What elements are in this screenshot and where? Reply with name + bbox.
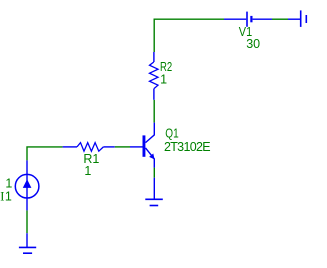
wire net top: R2 top to battery V1 [154, 19, 224, 52]
wire R1 right to Q1 base [115, 146, 130, 148]
svg-text:30: 30 [246, 37, 260, 51]
resistor R2 [150, 52, 159, 100]
resistor R1 [63, 143, 115, 152]
ground (at I1) [19, 233, 36, 253]
wire battery V1 to rotated ground [272, 18, 288, 20]
current source I1 [15, 160, 39, 210]
wire I1 top to R1 left [27, 147, 63, 161]
svg-text:I1: I1 [0, 190, 12, 204]
svg-text:2T3102E: 2T3102E [164, 140, 210, 154]
svg-text:Q1: Q1 [165, 127, 178, 141]
transistor Q1 [130, 123, 155, 168]
battery V1 [224, 12, 272, 27]
svg-text:1: 1 [160, 73, 167, 87]
ground (at Q1 emitter) [145, 178, 163, 206]
wire I1 bottom to ground [26, 210, 28, 233]
svg-text:1: 1 [5, 176, 12, 190]
ground (rotated, at battery V1) [288, 10, 306, 27]
wire Q1 emitter to ground [153, 168, 155, 178]
wire R2 bottom to Q1 collector [153, 100, 155, 123]
svg-text:1: 1 [84, 164, 91, 178]
